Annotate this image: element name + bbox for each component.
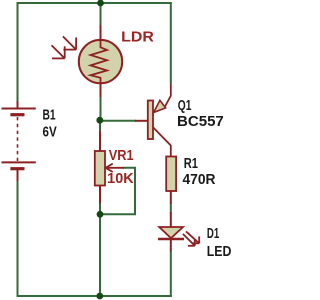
potentiometer VR1 body <box>95 151 105 186</box>
wire VR1 top stem <box>99 121 101 132</box>
wire left rail upper <box>17 2 19 102</box>
potentiometer VR1 wiper arrow <box>106 164 124 172</box>
junction node top <box>97 0 104 6</box>
wire VR1 wiper loop <box>100 168 135 215</box>
svg-text:Q1: Q1 <box>178 98 192 114</box>
svg-text:D1: D1 <box>207 226 219 242</box>
junction node wiper <box>97 211 104 218</box>
svg-text:BC557: BC557 <box>177 114 224 130</box>
transistor Q1 emitter arrowhead <box>154 100 166 112</box>
svg-text:VR1: VR1 <box>109 148 134 164</box>
wire LDR top stem <box>100 3 102 26</box>
junction node bottom <box>96 293 103 300</box>
svg-text:470R: 470R <box>183 172 217 188</box>
LED D1 cathode pin <box>170 239 172 252</box>
transistor Q1 emitter lead <box>165 84 171 107</box>
wire LDR bottom stem <box>100 96 102 122</box>
wire bottom rail <box>17 295 172 297</box>
battery B1 <box>2 101 36 181</box>
LED D1 anode pin <box>170 212 172 228</box>
transistor Q1 base bar <box>148 101 153 140</box>
LDR pin bottom <box>100 83 102 97</box>
LED light arrow 1 <box>186 231 199 243</box>
wire VR1 bottom stem <box>99 203 101 297</box>
wire R1 to LED segment <box>170 204 172 214</box>
transistor Q1 base lead <box>135 120 148 122</box>
LDR body <box>79 40 122 83</box>
wire right rail <box>170 2 172 84</box>
svg-text:10K: 10K <box>107 171 134 187</box>
wire left rail lower <box>17 180 19 297</box>
wire top rail <box>17 2 172 4</box>
LED D1 triangle <box>159 227 183 238</box>
LDR light arrow 2 <box>52 45 65 58</box>
svg-text:LED: LED <box>207 244 232 260</box>
resistor R1 bottom pin <box>170 191 172 204</box>
LDR zigzag element <box>91 40 108 84</box>
potentiometer VR1 bottom pin <box>99 186 101 204</box>
svg-text:B1: B1 <box>43 107 56 123</box>
svg-text:R1: R1 <box>184 156 198 172</box>
junction node base <box>96 117 103 124</box>
LED light arrow 2 <box>183 234 195 246</box>
wire base branch <box>100 120 136 122</box>
transistor Q1 collector lead <box>153 127 171 157</box>
svg-text:LDR: LDR <box>121 29 154 45</box>
resistor R1 body <box>166 157 176 192</box>
LED D1 cathode bar <box>158 238 184 240</box>
LDR light arrow 1 <box>63 36 76 49</box>
svg-text:6V: 6V <box>43 125 58 141</box>
LDR pin top <box>100 25 102 41</box>
potentiometer VR1 top pin <box>99 131 101 151</box>
wire LED bottom <box>170 251 172 297</box>
